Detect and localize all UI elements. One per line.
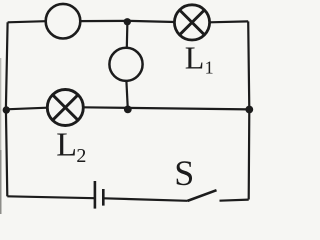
svg-text:L: L: [185, 40, 205, 76]
switch S (open blade): [188, 190, 217, 201]
scan edge artifact: [0, 58, 2, 150]
wire meter M1 to node A: [80, 20, 129, 22]
node A (junction dot, top wire): [124, 18, 131, 25]
label L1: [185, 40, 214, 78]
wire lamp L1 to top-right corner: [210, 20, 249, 23]
wire bottom-left to battery: [7, 196, 94, 198]
wire node C to lamp L2: [6, 108, 47, 110]
node C (junction dot, left vertical): [3, 106, 10, 113]
label L2: [56, 126, 86, 167]
svg-text:L: L: [56, 126, 77, 163]
meter M1 (blank circle, top branch): [46, 4, 81, 39]
node B (junction dot, middle wire): [124, 106, 132, 114]
lamp L2: [47, 90, 83, 126]
lamp L1: [174, 5, 209, 40]
wire left vertical: [6, 22, 8, 196]
wire stem node A to meter M2: [126, 22, 129, 48]
wire battery to switch S: [104, 198, 188, 201]
meter M2 (blank circle, middle branch): [109, 48, 142, 81]
wire switch S to bottom-right corner: [220, 200, 249, 201]
wire lamp L2 to node B and node D: [83, 107, 249, 109]
node D (junction dot, right vertical): [245, 106, 253, 114]
wire stem meter M2 to node B: [126, 81, 127, 109]
wire right vertical: [248, 21, 249, 199]
wire top-left corner to meter M1: [8, 21, 46, 22]
wire node A to lamp L1: [130, 21, 175, 22]
svg-text:1: 1: [205, 57, 214, 77]
svg-text:2: 2: [76, 145, 86, 167]
battery B1: [95, 181, 103, 209]
svg-text:S: S: [174, 153, 194, 193]
